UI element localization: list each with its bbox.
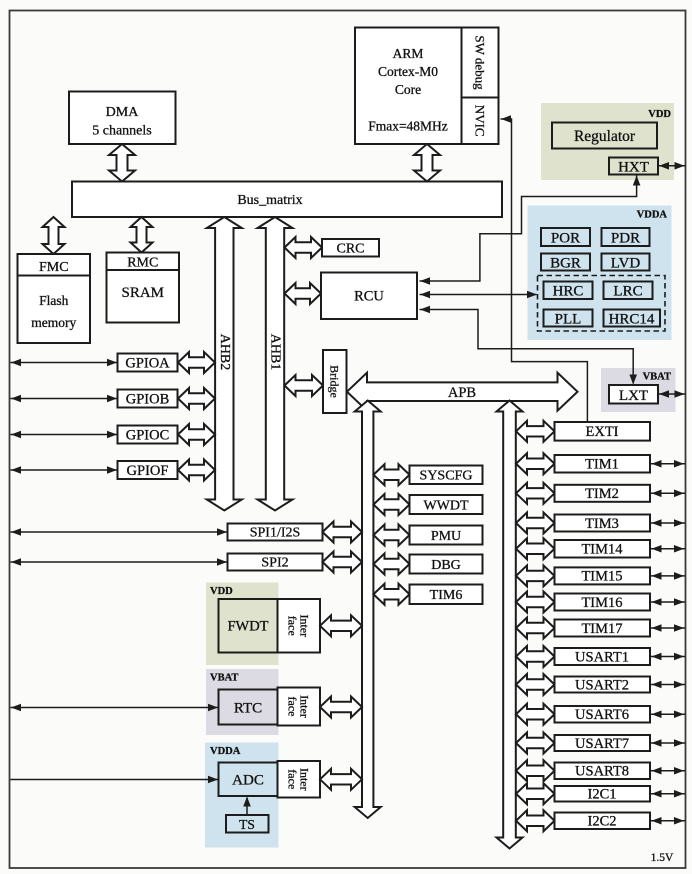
bus arrow Core to Bus_matrix — [414, 144, 440, 182]
bus arrow GPIOB to AHB2 — [178, 388, 215, 409]
bus arrow APB2 bus to I2C1 — [516, 783, 555, 804]
bus arrow APB2 bus to USART2 — [516, 674, 555, 695]
wire LXT to right border — [658, 393, 686, 395]
bus arrow APB2 bus to USART1 — [516, 646, 555, 667]
wire TIM14 to right border — [651, 548, 686, 550]
wire left port to SPI2 — [11, 561, 228, 563]
bus arrow APB1 bus to DBG — [374, 554, 410, 575]
block RTC interface — [278, 688, 321, 726]
bus arrow APB2 bus to TIM1 — [516, 453, 555, 474]
svg-text:AHB1: AHB1 — [268, 334, 283, 371]
svg-text:Bus_matrix: Bus_matrix — [237, 193, 302, 208]
svg-text:Bridge: Bridge — [328, 365, 342, 398]
svg-text:TIM6: TIM6 — [430, 588, 463, 603]
block GPIOB — [118, 390, 178, 408]
block TS temperature sensor — [226, 815, 269, 833]
wire left port to GPIOB — [11, 398, 118, 400]
bus arrow APB2 bus to USART8 — [516, 760, 555, 781]
block SYSCFG — [410, 466, 483, 485]
svg-text:TIM15: TIM15 — [581, 569, 622, 585]
svg-text:WWDT: WWDT — [423, 498, 469, 513]
block GPIOF — [118, 461, 178, 479]
svg-text:RCU: RCU — [354, 289, 384, 305]
svg-text:VBAT: VBAT — [210, 673, 238, 684]
wire left port to SPI1/I2S — [11, 531, 228, 533]
wire left port to ADC — [11, 779, 219, 781]
svg-text:SPI2: SPI2 — [261, 556, 288, 571]
block TIM2 — [555, 485, 651, 502]
wire HXT to right border — [658, 165, 686, 167]
svg-text:AHB2: AHB2 — [217, 334, 232, 371]
bus AHB2 vertical arrow — [207, 217, 242, 511]
svg-text:ARM: ARM — [393, 46, 424, 61]
block TIM17 — [555, 620, 651, 637]
svg-text:TS: TS — [239, 817, 255, 832]
svg-text:SYSCFG: SYSCFG — [420, 469, 473, 484]
wire left port to GPIOF — [11, 469, 118, 471]
svg-text:CRC: CRC — [336, 242, 364, 257]
bus arrow AHB1 to RCU — [285, 283, 322, 304]
block SPI1/I2S — [228, 524, 323, 541]
bus arrow APB2 bus to USART7 — [516, 733, 555, 754]
block DBG — [410, 555, 483, 574]
power region VBAT LXT — [601, 368, 676, 412]
block Bus_matrix — [72, 182, 502, 218]
block ARM Cortex-M0 Core — [355, 28, 462, 145]
svg-text:GPIOF: GPIOF — [127, 463, 169, 479]
svg-text:BGR: BGR — [550, 256, 581, 272]
svg-text:HRC14: HRC14 — [609, 312, 655, 328]
wire RCU to oscillator group — [420, 294, 537, 296]
svg-text:TIM3: TIM3 — [585, 516, 619, 532]
block HXT — [609, 158, 658, 175]
svg-text:Regulator: Regulator — [574, 128, 636, 145]
bus arrow APB2 bus to TIM3 — [516, 513, 555, 534]
dashed group oscillators — [538, 276, 666, 332]
svg-text:USART1: USART1 — [575, 649, 629, 665]
svg-text:HRC: HRC — [553, 284, 584, 300]
wire TIM2 to right border — [651, 492, 686, 494]
svg-text:memory: memory — [31, 315, 76, 330]
svg-text:TIM2: TIM2 — [585, 486, 619, 502]
bus arrow APB2 bus to TIM15 — [516, 565, 555, 586]
block EXTI — [555, 422, 651, 441]
bus APB horizontal arrow — [347, 373, 578, 411]
svg-text:EXTI: EXTI — [585, 424, 618, 440]
bus arrow APB2 bus to USART6 — [516, 704, 555, 725]
wire NVIC to EXTI — [501, 119, 588, 422]
bus arrow APB2 bus to EXTI — [516, 421, 555, 442]
wire left port to GPIOC — [11, 434, 118, 436]
block PLL — [544, 310, 593, 327]
wire TIM16 to right border — [651, 601, 686, 603]
wire left port to RTC — [11, 707, 219, 709]
svg-text:5 channels: 5 channels — [92, 124, 151, 139]
block HRC — [544, 282, 593, 300]
svg-text:LRC: LRC — [613, 284, 642, 300]
block LRC — [604, 282, 653, 300]
block LVD — [602, 254, 650, 271]
svg-text:LXT: LXT — [619, 388, 648, 404]
block NVIC — [462, 98, 499, 145]
svg-text:GPIOC: GPIOC — [126, 428, 170, 444]
bus arrow FWDT interface to APB1 bus — [320, 615, 362, 636]
bus arrow GPIOF to AHB2 — [178, 460, 215, 481]
bus arrow APB1 bus to WWDT — [374, 494, 410, 515]
block I2C2 — [555, 813, 651, 830]
svg-text:SW debug: SW debug — [473, 35, 488, 90]
power region VDDA ADC — [205, 743, 279, 848]
wire USART1 to right border — [651, 656, 686, 658]
svg-text:face: face — [286, 697, 300, 717]
svg-text:FMC: FMC — [39, 260, 69, 275]
bus arrow APB2 bus to TIM14 — [516, 538, 555, 559]
svg-text:RTC: RTC — [234, 701, 262, 717]
bus APB2 vertical (right peripheral bus) — [497, 401, 523, 849]
bus arrow APB1 bus to SYSCFG — [374, 464, 410, 485]
block ADC — [219, 763, 278, 797]
block TIM16 — [555, 594, 651, 611]
svg-text:ADC: ADC — [232, 773, 264, 789]
block BGR — [541, 254, 590, 271]
wire USART2 to right border — [651, 684, 686, 686]
bus arrow APB2 bus to I2C2 — [516, 810, 555, 831]
wire I2C2 to right border — [651, 820, 686, 822]
bus APB1 vertical (left peripheral bus) — [355, 401, 381, 819]
wire USART8 to right border — [651, 770, 686, 772]
wire TS to ADC — [246, 798, 248, 816]
block USART7 — [555, 735, 651, 751]
svg-text:USART6: USART6 — [575, 707, 629, 723]
svg-text:GPIOB: GPIOB — [126, 392, 170, 408]
block USART8 — [555, 763, 651, 780]
svg-text:Fmax=48MHz: Fmax=48MHz — [368, 119, 448, 134]
svg-text:USART2: USART2 — [575, 677, 629, 693]
svg-text:DMA: DMA — [106, 105, 140, 120]
block WWDT — [410, 495, 483, 514]
block FMC Flash memory — [18, 254, 91, 343]
block GPIOA — [118, 354, 178, 372]
svg-text:PDR: PDR — [611, 231, 640, 247]
bus arrow SPI2 to APB1 bus — [323, 552, 363, 573]
wire TIM15 to right border — [651, 575, 686, 577]
wire I2C1 to right border — [651, 793, 686, 795]
svg-text:SRAM: SRAM — [121, 285, 164, 301]
block SPI2 — [228, 554, 323, 571]
block TIM1 — [555, 455, 651, 473]
bus arrow ADC interface to APB1 bus — [320, 769, 362, 790]
block RMC SRAM — [107, 253, 180, 323]
bus arrow AHB1 to CRC — [285, 237, 323, 258]
block POR — [541, 228, 590, 246]
svg-text:NVIC: NVIC — [473, 105, 488, 137]
block SW debug — [462, 28, 499, 98]
block ADC interface — [278, 761, 321, 798]
bus arrow Bus_matrix to FMC — [43, 217, 65, 254]
svg-text:TIM1: TIM1 — [585, 457, 619, 473]
svg-text:face: face — [286, 769, 300, 789]
power region VDDA oscillators — [528, 206, 672, 341]
svg-text:VDDA: VDDA — [210, 746, 241, 757]
bus arrow SPI1/I2S to APB1 bus — [323, 522, 363, 543]
bus arrow APB1 bus to TIM6 — [374, 584, 410, 605]
svg-text:GPIOA: GPIOA — [125, 356, 170, 372]
bus arrow Bus_matrix to RMC — [131, 217, 153, 253]
bus arrow GPIOA to AHB2 — [178, 352, 215, 373]
svg-text:APB: APB — [448, 385, 476, 401]
bus arrow APB2 bus to TIM2 — [516, 483, 555, 504]
svg-text:VDD: VDD — [648, 109, 671, 120]
wire USART6 to right border — [651, 713, 686, 715]
bus arrow APB2 bus to TIM17 — [516, 618, 555, 639]
wire TIM17 to right border — [651, 627, 686, 629]
block PMU — [410, 526, 483, 545]
svg-text:POR: POR — [551, 231, 580, 247]
block Bridge — [323, 350, 347, 413]
svg-text:RMC: RMC — [127, 256, 158, 271]
svg-text:USART8: USART8 — [575, 764, 629, 780]
block TIM15 — [555, 567, 651, 584]
svg-text:TIM16: TIM16 — [581, 595, 622, 611]
block USART2 — [555, 677, 651, 693]
block GPIOC — [118, 426, 178, 444]
svg-text:face: face — [286, 616, 300, 636]
svg-text:VDD: VDD — [210, 586, 233, 597]
bus arrow DMA to Bus_matrix — [109, 144, 135, 182]
bus arrow APB1 bus to PMU — [374, 525, 410, 546]
wire TIM3 to right border — [651, 522, 686, 524]
bus AHB1 vertical arrow — [258, 217, 293, 511]
svg-text:FWDT: FWDT — [227, 619, 268, 635]
svg-text:VDDA: VDDA — [637, 210, 668, 221]
wire RCU to HXT — [420, 176, 637, 282]
power region VBAT RTC — [206, 669, 279, 735]
power region VDD FWDT — [206, 583, 279, 666]
wire left port to GPIOA — [11, 362, 118, 364]
block LXT — [609, 385, 658, 404]
bus arrow RTC interface to APB1 bus — [320, 697, 362, 718]
block RCU — [321, 273, 417, 320]
svg-text:PLL: PLL — [555, 312, 582, 328]
wire RCU to LXT — [420, 310, 634, 384]
block FWDT interface — [278, 599, 321, 653]
block TIM3 — [555, 515, 651, 532]
wire TIM1 to right border — [651, 463, 686, 465]
svg-text:VBAT: VBAT — [643, 372, 671, 383]
svg-text:Core: Core — [395, 82, 421, 97]
bus arrow APB2 bus to TIM16 — [516, 592, 555, 613]
bus arrow AHB1 to Bridge — [285, 375, 324, 396]
svg-text:TIM14: TIM14 — [581, 542, 623, 558]
svg-text:TIM17: TIM17 — [581, 621, 622, 637]
block USART6 — [555, 706, 651, 723]
svg-text:SPI1/I2S: SPI1/I2S — [250, 526, 301, 541]
block I2C1 — [555, 786, 651, 802]
svg-text:HXT: HXT — [618, 160, 649, 176]
svg-text:1.5V: 1.5V — [651, 852, 674, 864]
svg-text:I2C2: I2C2 — [588, 814, 617, 830]
block Regulator — [552, 123, 657, 149]
bus arrow GPIOC to AHB2 — [178, 424, 215, 445]
svg-text:LVD: LVD — [611, 256, 641, 272]
svg-text:Flash: Flash — [39, 293, 69, 308]
block TIM6 — [410, 585, 483, 605]
block TIM14 — [555, 540, 651, 558]
block HRC14 — [604, 310, 661, 327]
svg-text:I2C1: I2C1 — [588, 787, 617, 803]
wire USART7 to right border — [651, 742, 686, 744]
block CRC — [322, 239, 379, 257]
svg-text:PMU: PMU — [431, 529, 461, 544]
block FWDT — [219, 599, 278, 653]
power region VDD regulator — [541, 103, 674, 180]
block PDR — [602, 228, 650, 246]
svg-text:DBG: DBG — [431, 558, 461, 573]
svg-text:USART7: USART7 — [575, 736, 629, 752]
svg-text:Cortex-M0: Cortex-M0 — [378, 64, 438, 79]
block DMA — [69, 92, 176, 145]
block USART1 — [555, 648, 651, 665]
block RTC — [219, 690, 278, 725]
